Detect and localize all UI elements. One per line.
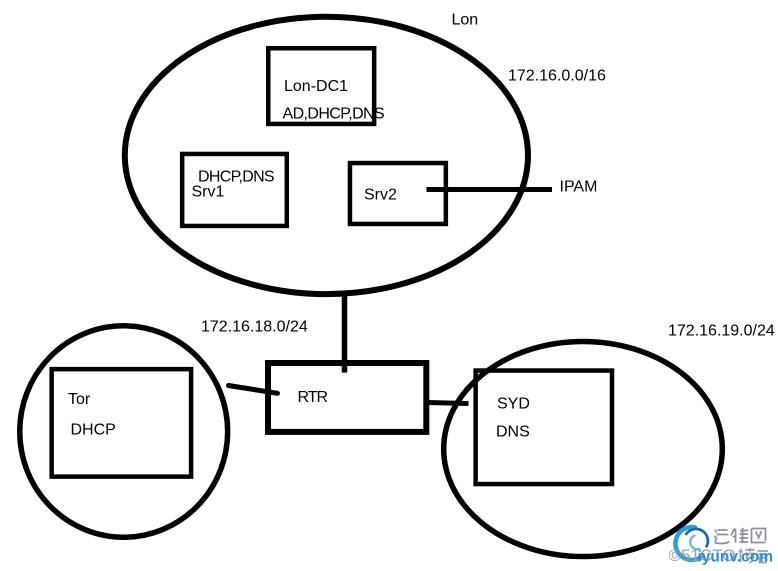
watermark text 51CTO bokeh (gray)	[669, 546, 769, 565]
svg-text:iyunv.com: iyunv.com	[698, 549, 774, 566]
wire Tor circle to RTR	[229, 386, 278, 394]
server box Lon-DC1	[268, 48, 374, 124]
svg-text:DNS: DNS	[496, 424, 530, 441]
site ellipse SYD	[444, 342, 723, 557]
svg-text:AD,DHCP,DNS: AD,DHCP,DNS	[283, 106, 385, 123]
site circle Tor	[20, 326, 228, 537]
svg-text:Srv1: Srv1	[192, 184, 225, 201]
site ellipse Lon	[125, 17, 528, 294]
svg-text:Srv2: Srv2	[364, 186, 397, 203]
watermark text yunweiwang (CJK approximation)	[715, 528, 766, 544]
server box Tor	[52, 369, 191, 476]
wire Lon ellipse to RTR	[342, 294, 348, 373]
server box Srv1	[182, 154, 287, 226]
wire Srv2 to IPAM	[427, 187, 553, 192]
svg-text:RTR: RTR	[298, 389, 328, 406]
server box Srv2	[350, 163, 446, 224]
server box SYD	[476, 371, 612, 485]
svg-text:IPAM: IPAM	[560, 179, 598, 196]
svg-text:SYD: SYD	[497, 396, 530, 413]
svg-text:172.16.19.0/24: 172.16.19.0/24	[668, 322, 775, 339]
svg-text:Lon: Lon	[452, 12, 479, 29]
svg-text:172.16.0.0/16: 172.16.0.0/16	[508, 67, 606, 84]
router box RTR	[268, 363, 426, 432]
watermark logo swirl	[675, 527, 707, 560]
wire RTR to SYD	[427, 403, 469, 404]
svg-text:172.16.18.0/24: 172.16.18.0/24	[201, 319, 308, 336]
svg-text:DHCP: DHCP	[71, 422, 116, 439]
svg-text:Tor: Tor	[68, 391, 91, 408]
svg-text:Lon-DC1: Lon-DC1	[284, 78, 348, 95]
